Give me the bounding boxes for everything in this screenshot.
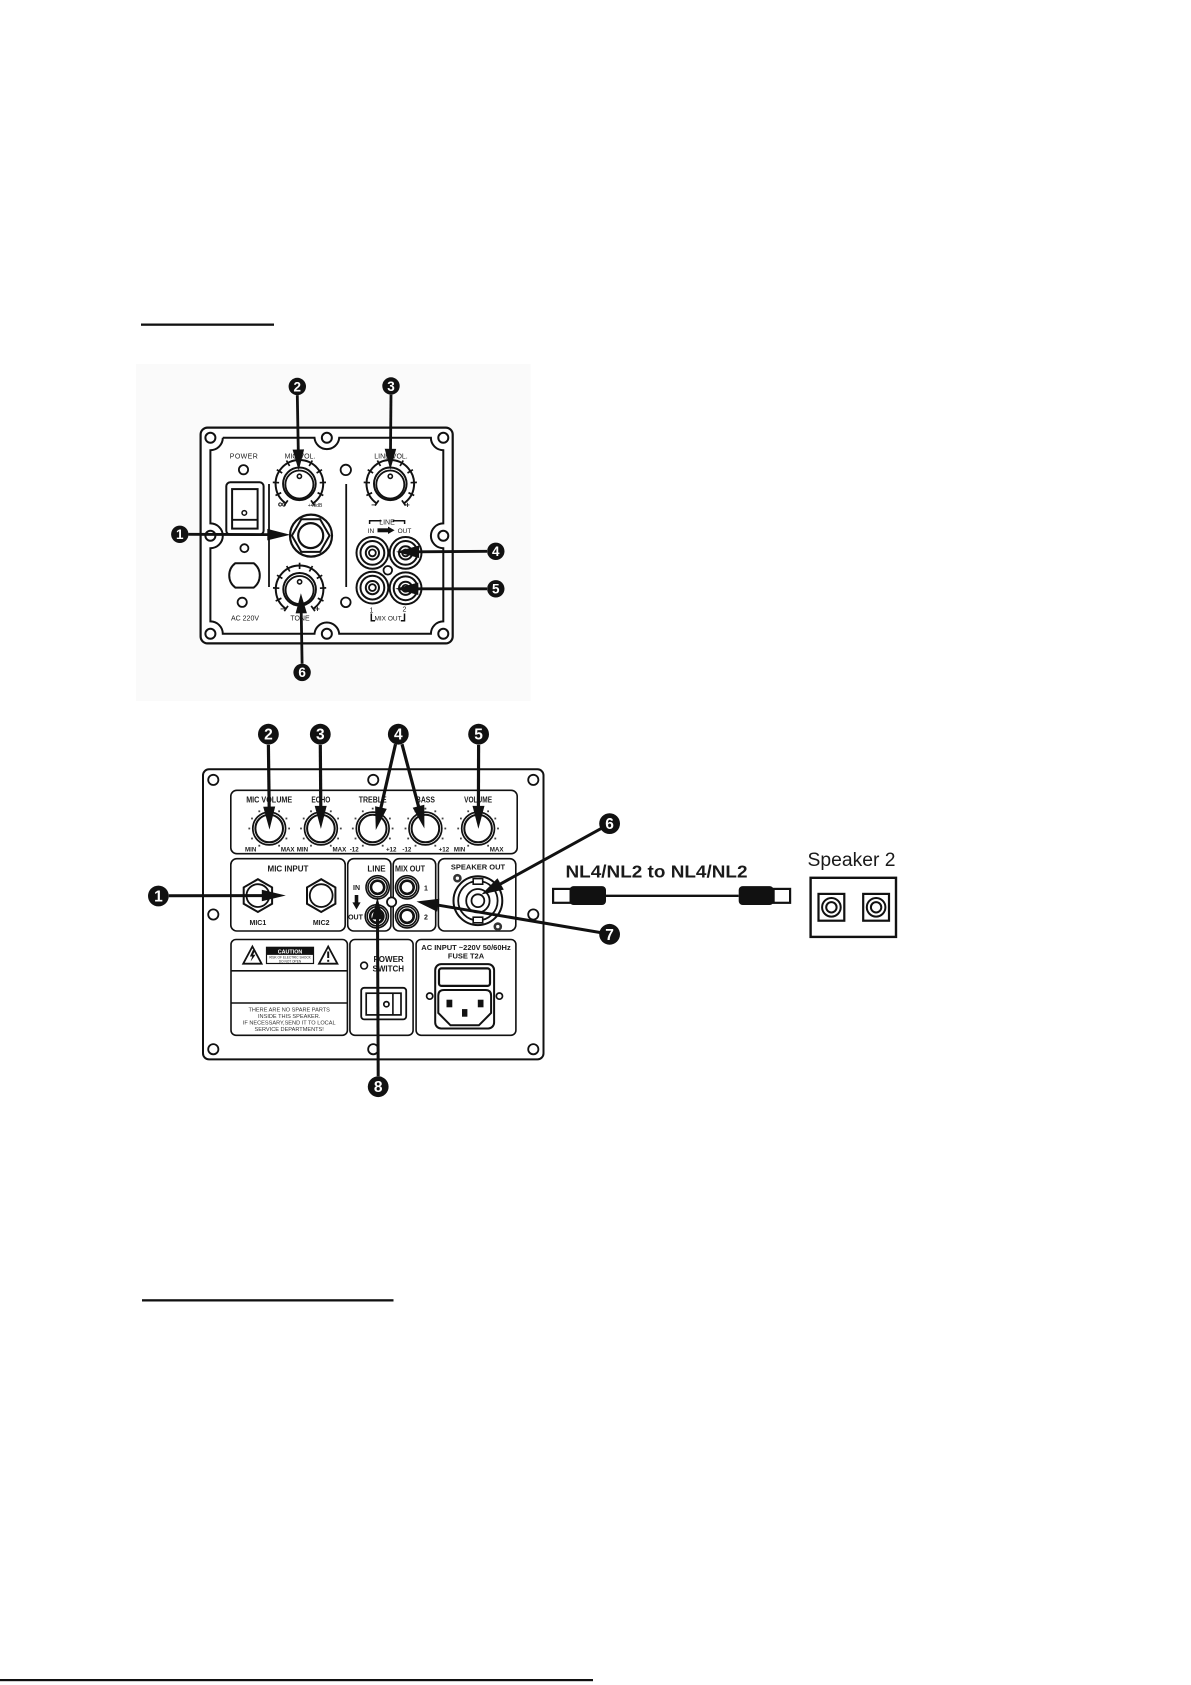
svg-text:1: 1 <box>176 527 184 542</box>
LINE bracket label <box>370 520 405 527</box>
caution box <box>231 940 347 1036</box>
svg-text:OUT: OUT <box>398 528 412 535</box>
svg-text:∞: ∞ <box>278 497 287 511</box>
callout 2 (panel 2) <box>258 724 279 745</box>
svg-text:NL4/NL2 to NL4/NL2: NL4/NL2 to NL4/NL2 <box>566 862 748 882</box>
svg-text:2: 2 <box>424 915 428 922</box>
panel 2 right-mid screw <box>528 909 538 919</box>
hole right of MIC VOL knob <box>341 465 351 475</box>
leader arrow to MIC1 jack <box>169 890 286 902</box>
callout 4 (panel 1) <box>487 543 504 560</box>
svg-text:5: 5 <box>492 582 500 597</box>
callout 5 (panel 2) <box>468 724 489 745</box>
svg-text:THERE ARE NO SPARE PARTS: THERE ARE NO SPARE PARTS <box>248 1007 330 1013</box>
leader arrow to VOLUME knob <box>473 745 485 829</box>
svg-text:MAX: MAX <box>490 847 505 854</box>
leader arrow to MIX OUT jacks <box>417 899 601 933</box>
svg-text:+12: +12 <box>439 847 450 854</box>
svg-text:+40dB: +40dB <box>308 503 323 509</box>
knob BASS <box>405 808 447 847</box>
knob ECHO <box>300 808 342 847</box>
svg-text:MIX OUT: MIX OUT <box>395 865 425 874</box>
svg-text:5: 5 <box>474 727 483 744</box>
leader arrow to TONE knob <box>296 593 307 663</box>
svg-text:CAUTION: CAUTION <box>278 949 303 955</box>
svg-text:MIN: MIN <box>454 847 466 854</box>
knob section box <box>231 790 517 853</box>
svg-text:4: 4 <box>492 544 500 559</box>
svg-text:-12: -12 <box>402 847 412 854</box>
panel 2 left-mid screw <box>208 909 218 919</box>
leader arrow to SPEAKER OUT connector <box>481 828 601 894</box>
svg-text:−: − <box>280 605 285 614</box>
svg-text:2: 2 <box>403 607 407 614</box>
svg-text:MAX: MAX <box>281 847 296 854</box>
svg-text:DO NOT OPEN: DO NOT OPEN <box>279 959 302 963</box>
knob MIC VOLUME <box>248 808 290 847</box>
panel 1 bottom-left screw <box>205 629 215 639</box>
AC 220V connector cutout <box>229 563 260 587</box>
panel 2 bottom-mid screw <box>368 1044 378 1054</box>
svg-text:LINE: LINE <box>367 865 386 874</box>
knob TONE <box>273 563 326 611</box>
panel 1: amplifier rear plate outline <box>201 428 453 644</box>
panel 2: powered speaker rear plate outline <box>203 769 544 1059</box>
service note text <box>243 1007 336 1033</box>
MIC input jack (1/4 inch) <box>290 515 332 557</box>
callout 1 (panel 1) <box>171 526 188 543</box>
svg-text:8: 8 <box>374 1079 383 1096</box>
jack LINE OUT (panel 2) <box>365 905 388 928</box>
caution box divider lower <box>231 1002 347 1004</box>
speakON screw top-left <box>454 875 460 881</box>
rocker switch (panel 2) <box>361 988 406 1020</box>
panel 1 bottom-mid screw <box>322 629 332 639</box>
caution box divider upper <box>231 970 347 972</box>
panel 2 top-right screw <box>528 775 538 785</box>
IEC module left screw <box>427 993 433 999</box>
hole above AC connector <box>240 544 248 552</box>
knob LINE VOL <box>364 457 417 505</box>
power indicator hole <box>239 465 248 474</box>
speaker cable <box>553 886 790 905</box>
jack MIX OUT 2 (panel 2) <box>396 905 419 928</box>
second heading underline <box>142 1299 394 1301</box>
svg-text:2: 2 <box>294 379 302 394</box>
leader arrow to LINE VOL knob <box>385 395 397 470</box>
leader arrow to MIC jack <box>189 529 291 541</box>
svg-text:6: 6 <box>298 665 306 680</box>
panel 1 top-mid screw <box>322 433 332 443</box>
svg-text:2: 2 <box>264 727 273 744</box>
svg-text:1: 1 <box>370 608 374 615</box>
jack LINE OUT <box>390 537 422 569</box>
svg-text:MIC1: MIC1 <box>250 920 267 927</box>
svg-text:1: 1 <box>424 886 428 893</box>
svg-text:1: 1 <box>154 889 163 906</box>
jack MIC2 <box>307 879 335 912</box>
IN-to-OUT arrow glyph <box>378 527 395 534</box>
svg-text:MIN: MIN <box>297 847 309 854</box>
callout 8 (panel 2) <box>368 1076 389 1097</box>
leader arrow to MIC VOLUME knob <box>263 745 275 830</box>
jack MIC1 <box>244 879 272 912</box>
panel 2 top-left screw <box>208 775 218 785</box>
callout 1 (panel 2) <box>148 886 169 907</box>
callout 2 (panel 1) <box>289 378 306 395</box>
svg-text:AC 220V: AC 220V <box>231 615 259 622</box>
speaker 2 input plate <box>811 878 896 937</box>
callout 7 (panel 2) <box>599 924 620 945</box>
svg-text:6: 6 <box>605 816 614 833</box>
leader arrow to LINE OUT jack <box>396 546 487 559</box>
leader arrow to TREBLE knob <box>375 744 395 830</box>
svg-text:LINE: LINE <box>379 520 395 527</box>
callout 4 (panel 2) <box>388 724 409 745</box>
jack LINE IN (panel 2) <box>366 876 389 899</box>
svg-text:OUT: OUT <box>348 915 364 922</box>
panel 2 bottom-right screw <box>528 1044 538 1054</box>
hole between LINE and MIX OUT boxes <box>387 897 396 906</box>
callout 3 (panel 1) <box>382 377 399 394</box>
leader arrow to MIC VOL knob <box>293 395 305 470</box>
heading underline (section title rule) <box>141 324 274 326</box>
svg-text:SERVICE DEPARTMENTS!: SERVICE DEPARTMENTS! <box>255 1027 325 1033</box>
svg-text:MIC INPUT: MIC INPUT <box>268 865 309 874</box>
IEC power module <box>435 964 494 1028</box>
callout 6 (panel 2) <box>599 813 620 834</box>
center hole between jacks <box>384 566 393 575</box>
speakON screw bottom-right <box>495 924 501 930</box>
CAUTION label plate <box>267 947 314 963</box>
speakON connector <box>454 876 503 925</box>
leader arrow to BASS knob <box>402 744 424 828</box>
panel 2 top-mid screw <box>368 775 378 785</box>
knob VOLUME <box>457 808 499 847</box>
leader arrow to LINE OUT jack (8) <box>372 897 384 1076</box>
panel 2 bottom-left screw <box>208 1044 218 1054</box>
svg-text:INSIDE THIS SPEAKER.: INSIDE THIS SPEAKER. <box>258 1014 321 1020</box>
svg-text:MIC2: MIC2 <box>313 920 330 927</box>
MIX OUT bracket label <box>371 614 404 623</box>
SPEAKER OUT box <box>438 859 515 931</box>
svg-text:−: − <box>371 501 376 510</box>
svg-text:7: 7 <box>605 927 614 944</box>
IEC module right screw <box>496 993 502 999</box>
divider line right of mic jack <box>345 484 347 587</box>
svg-text:IN: IN <box>368 528 375 535</box>
power switch indicator hole <box>361 962 368 969</box>
panel 1 right-mid screw <box>438 531 448 541</box>
leader arrow to ECHO knob <box>315 745 327 829</box>
svg-text:+12: +12 <box>386 847 397 854</box>
warning triangle with lightning bolt <box>243 947 261 964</box>
footer rule <box>0 1679 593 1681</box>
knob MIC VOL <box>273 457 326 505</box>
panel 1 top-left screw <box>205 433 215 443</box>
jack MIX OUT 1 <box>357 572 389 604</box>
svg-text:+: + <box>315 605 320 614</box>
leader arrow to MIX OUT 2 jack <box>395 583 487 596</box>
svg-text:4: 4 <box>394 727 403 744</box>
hole below AC connector <box>238 598 247 607</box>
MIX OUT box <box>393 859 436 931</box>
label POWER SWITCH <box>373 955 405 973</box>
svg-text:MIX OUT: MIX OUT <box>374 616 401 623</box>
svg-text:3: 3 <box>387 379 395 394</box>
svg-text:FUSE T2A: FUSE T2A <box>448 952 485 961</box>
svg-text:-12: -12 <box>350 847 360 854</box>
svg-text:POWER: POWER <box>230 454 258 461</box>
LINE box <box>348 859 391 931</box>
svg-text:SPEAKER OUT: SPEAKER OUT <box>451 863 506 872</box>
svg-text:+: + <box>405 501 410 510</box>
power rocker switch <box>226 482 263 534</box>
callout 3 (panel 2) <box>310 724 331 745</box>
divider line left of mic jack <box>268 484 270 587</box>
jack MIX OUT 2 <box>390 572 422 604</box>
callout 5 (panel 1) <box>487 580 504 597</box>
MIC INPUT box <box>231 859 345 931</box>
jack LINE IN <box>357 537 389 569</box>
AC INPUT box <box>416 940 516 1036</box>
panel 1 left-mid screw <box>205 531 215 541</box>
svg-text:Speaker 2: Speaker 2 <box>808 850 896 871</box>
IN/OUT down arrow <box>352 895 360 910</box>
svg-text:MIN: MIN <box>245 847 257 854</box>
svg-text:IF NECESSARY,SEND IT TO LOCAL: IF NECESSARY,SEND IT TO LOCAL <box>243 1021 336 1027</box>
warning triangle with exclamation <box>319 947 337 964</box>
panel 1 bottom-right screw <box>438 629 448 639</box>
panel 1 inner border with screw notches <box>210 438 443 634</box>
panel 1 top-right screw <box>438 433 448 443</box>
knob TREBLE <box>352 808 394 847</box>
callout 6 (panel 1) <box>293 664 310 681</box>
svg-text:MAX: MAX <box>333 847 348 854</box>
svg-text:IN: IN <box>353 885 360 892</box>
POWER SWITCH box <box>350 940 413 1036</box>
svg-text:3: 3 <box>316 727 325 744</box>
jack MIX OUT 1 (panel 2) <box>396 876 419 899</box>
figure 1 scan background <box>136 364 531 701</box>
hole right of TONE knob <box>341 598 351 608</box>
